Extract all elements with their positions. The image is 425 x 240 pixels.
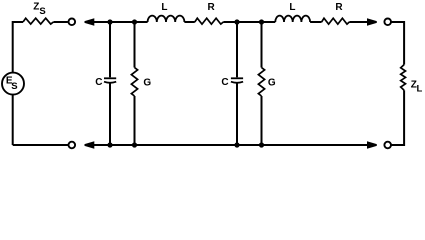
terminal bottom-right [384,142,391,149]
arrow top-right [367,18,377,25]
junction dot top 4 [259,19,264,24]
capacitor C1 bottom lead [109,83,111,145]
capacitor C1 plate bottom [104,82,116,83]
svg-text:L: L [161,2,167,13]
capacitor C1 top lead [109,22,111,77]
svg-text:C: C [95,77,102,88]
arrow bottom-right [367,141,377,148]
conductance G2 bottom lead [261,96,263,145]
svg-text:G: G [268,77,276,88]
wire [349,21,368,23]
capacitor C2 plate top [231,77,243,79]
resistor R1 [195,18,224,24]
svg-text:S: S [11,81,17,92]
wire [12,95,14,145]
capacitor C1 plate top [104,77,116,79]
svg-text:L: L [417,83,423,94]
wire [310,21,322,23]
terminal top-right [384,19,391,26]
conductance G1 zigzag [131,68,137,97]
junction dot bottom 2 [132,142,137,147]
wire [12,21,14,73]
junction dot bottom 4 [259,142,264,147]
resistor R2 [322,18,350,24]
capacitor C2 bottom lead [236,83,238,145]
wire [391,22,404,65]
wire [13,21,23,23]
conductance G1 bottom lead [134,96,136,145]
wire [13,144,68,146]
conductance G2 zigzag [258,68,264,97]
svg-text:L: L [289,2,295,13]
wire top rail section 1 [93,21,148,23]
terminal top-left [69,19,76,26]
junction dot top 3 [234,19,239,24]
svg-text:S: S [39,6,45,17]
inductor L2 [275,16,310,22]
wire [391,90,404,145]
conductance G1 top lead [134,22,136,68]
junction dot top 2 [132,19,137,24]
capacitor C2 top lead [236,22,238,77]
wire top rail section 2 [223,21,275,23]
conductance G2 top lead [261,22,263,68]
inductor L1 [148,16,185,22]
svg-text:G: G [143,77,151,88]
resistor ZL [401,65,406,91]
svg-text:C: C [221,77,228,88]
terminal bottom-left [69,142,76,149]
wire [53,21,68,23]
wire bottom rail [93,144,369,146]
junction dot top 1 [107,19,112,24]
wire [184,21,194,23]
capacitor C2 plate bottom [231,82,243,83]
arrow bottom-left [85,141,95,148]
junction dot bottom 3 [234,142,239,147]
svg-text:R: R [335,2,343,13]
svg-text:R: R [208,2,216,13]
junction dot bottom 1 [107,142,112,147]
arrow top-left [85,18,95,25]
resistor ZS [23,18,53,24]
source ES [2,73,24,95]
